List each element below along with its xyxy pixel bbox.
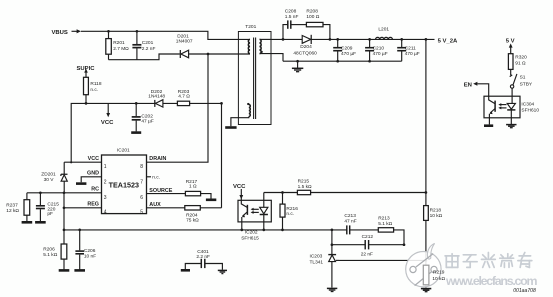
- svg-text:C206: C206: [84, 248, 96, 254]
- resistor R320: [508, 54, 527, 75]
- op-amp U1 IC201 TEA1523 body: [102, 147, 147, 213]
- diode D202 1N4148: [148, 89, 165, 107]
- resistor R215: [297, 179, 312, 195]
- svg-text:1: 1: [104, 164, 107, 170]
- wire aux feedback vertical: [221, 103, 223, 207]
- svg-text:C212: C212: [362, 234, 374, 240]
- capacitor C208: [285, 8, 307, 28]
- ground bar C401 left: [181, 269, 190, 272]
- pin 1 VCC: [64, 156, 107, 170]
- capacitor C201: [132, 31, 155, 59]
- pin 4 REG: [64, 202, 107, 216]
- resistor R218: [424, 206, 443, 261]
- capacitor C209: [333, 39, 356, 61]
- svg-text:2: 2: [104, 179, 107, 185]
- diode D201 1N4007: [176, 33, 193, 58]
- wire VBUS rail to transformer primary top: [81, 31, 250, 39]
- pin 5 AUX: [140, 202, 185, 215]
- ground bar pin 2: [76, 182, 86, 185]
- svg-text:3: 3: [104, 195, 107, 201]
- svg-text:91 Ω: 91 Ω: [515, 61, 526, 67]
- junction dots left network: [39, 102, 223, 231]
- svg-text:C209: C209: [341, 45, 353, 51]
- svg-text:VBUS: VBUS: [52, 30, 68, 36]
- svg-text:VCC: VCC: [101, 120, 114, 126]
- node VCC label IC202: [233, 184, 246, 199]
- svg-text:R219: R219: [433, 270, 445, 276]
- wire bottom rail: [64, 229, 347, 231]
- capacitor C206: [75, 230, 96, 270]
- junction dots feedback: [240, 191, 427, 231]
- svg-text:8: 8: [140, 164, 143, 170]
- svg-text:pF: pF: [47, 211, 53, 217]
- resistor R203: [177, 89, 190, 106]
- ground bar C206: [74, 269, 85, 272]
- svg-text:1.5 kΩ: 1.5 kΩ: [298, 184, 312, 190]
- svg-text:1N4007: 1N4007: [176, 39, 193, 45]
- svg-text:5.1 kΩ: 5.1 kΩ: [378, 221, 392, 227]
- svg-text:n.c.: n.c.: [90, 88, 98, 93]
- LED IC304: [507, 96, 515, 124]
- capacitor C212: [332, 234, 404, 257]
- svg-text:R320: R320: [515, 55, 527, 61]
- svg-text:S1: S1: [520, 75, 526, 81]
- resistor R204: [185, 206, 222, 224]
- svg-text:2.2 nF: 2.2 nF: [142, 46, 156, 52]
- wire VCC aux rail: [71, 103, 221, 162]
- ground R219 (earth): [421, 289, 431, 292]
- capacitor C210: [365, 39, 388, 61]
- ground IC304 LED (earth): [506, 125, 516, 128]
- svg-text:C202: C202: [141, 114, 153, 120]
- ground secondary (earth): [292, 61, 303, 71]
- pin 6 SOURCE: [140, 188, 185, 201]
- svg-text:ZD201: ZD201: [41, 172, 56, 178]
- ground bar IC304 transistor: [484, 124, 493, 127]
- svg-text:n.c.: n.c.: [286, 212, 294, 217]
- capacitor C401: [185, 249, 222, 270]
- wire snubber bottom to D201 cathode: [109, 54, 180, 60]
- svg-text:DRAIN: DRAIN: [149, 156, 166, 162]
- wire DRAIN pin to drain node: [147, 54, 209, 162]
- wire output sense vertical: [425, 39, 427, 205]
- svg-text:R215: R215: [298, 179, 310, 185]
- svg-text:STBY: STBY: [520, 82, 533, 88]
- svg-text:R118: R118: [90, 81, 101, 87]
- svg-text:D204: D204: [300, 44, 312, 50]
- svg-text:470 µF: 470 µF: [341, 51, 356, 57]
- svg-text:TL341: TL341: [310, 259, 324, 265]
- transformer T201 box: [238, 32, 271, 125]
- node VCC arrow tap: [101, 103, 114, 126]
- svg-text:C201: C201: [142, 40, 154, 46]
- transistor IC202 phototransistor: [241, 197, 247, 230]
- svg-text:n.c.: n.c.: [152, 176, 160, 181]
- optocoupler IC202 box: [238, 200, 271, 241]
- svg-text:SOURCE: SOURCE: [149, 188, 172, 194]
- ground bar R206: [59, 269, 70, 272]
- wire TL431 cathode line: [331, 230, 333, 255]
- svg-text:C401: C401: [197, 249, 209, 255]
- ground bar aux winding: [225, 126, 236, 129]
- svg-text:6: 6: [140, 195, 143, 201]
- svg-text:4: 4: [104, 209, 107, 215]
- svg-text:470 µF: 470 µF: [405, 51, 420, 57]
- wire D201 anode to drain node and primary bottom: [189, 53, 250, 55]
- svg-text:10 kΩ: 10 kΩ: [432, 276, 445, 282]
- resistor R208: [306, 8, 323, 26]
- ground bar C215: [35, 221, 46, 224]
- svg-text:www.elecfans.com: www.elecfans.com: [445, 274, 538, 288]
- svg-text:C208: C208: [285, 8, 297, 14]
- LED IC202: [260, 193, 268, 230]
- svg-text:1.5 nF: 1.5 nF: [285, 14, 299, 20]
- ground bar R217: [206, 199, 216, 202]
- svg-text:D201: D201: [177, 33, 189, 39]
- label drawing code 001aa708: [513, 288, 536, 294]
- optocoupler IC304 box: [484, 96, 539, 118]
- resistor R213: [378, 216, 404, 245]
- svg-text:5.1 kΩ: 5.1 kΩ: [43, 252, 57, 258]
- node VBUS label and arrow: [52, 29, 81, 36]
- capacitor C215: [36, 193, 59, 221]
- svg-text:R206: R206: [43, 246, 55, 252]
- svg-text:10 nF: 10 nF: [84, 254, 96, 260]
- svg-text:R201: R201: [113, 40, 125, 46]
- svg-text:VCC: VCC: [233, 184, 246, 190]
- svg-text:1N4148: 1N4148: [148, 93, 165, 99]
- svg-text:2.2 nF: 2.2 nF: [196, 254, 210, 260]
- svg-text:T201: T201: [245, 24, 256, 30]
- resistor R118: [84, 77, 102, 103]
- svg-text:4.7 Ω: 4.7 Ω: [178, 93, 190, 99]
- svg-text:IC304: IC304: [521, 102, 534, 108]
- pin 8 DRAIN: [140, 156, 166, 170]
- ground C401 right (earth): [218, 270, 227, 273]
- junction dots TL431 net: [331, 243, 428, 261]
- wire output ground rail: [283, 60, 402, 62]
- svg-text:IC201: IC201: [117, 147, 130, 153]
- svg-text:2.7 MΩ: 2.7 MΩ: [113, 46, 129, 52]
- svg-text:C213: C213: [344, 213, 356, 219]
- svg-text:L201: L201: [378, 26, 389, 32]
- capacitor C211: [397, 39, 420, 61]
- svg-text:47 µF: 47 µF: [141, 119, 153, 125]
- inductor L201: [376, 26, 393, 39]
- svg-text:SFH615: SFH615: [241, 235, 259, 241]
- svg-text:10 kΩ: 10 kΩ: [430, 213, 443, 219]
- svg-text:REG: REG: [87, 202, 99, 208]
- wire 5V output rail: [271, 38, 435, 40]
- svg-text:C210: C210: [373, 45, 385, 51]
- ground TL431 (earth): [327, 288, 337, 291]
- wire feedback top rail: [264, 192, 426, 194]
- switch S1 STBY: [510, 74, 533, 96]
- node SUPIC label and arrow: [77, 66, 96, 77]
- svg-text:SFH610: SFH610: [521, 108, 539, 114]
- capacitor C202: [132, 103, 154, 131]
- svg-text:7: 7: [140, 179, 143, 185]
- node 5 V label and arrow: [506, 38, 515, 53]
- pin 3 RC: [27, 187, 107, 202]
- transformer T201 label: [245, 24, 256, 30]
- svg-text:12 kΩ: 12 kΩ: [6, 208, 19, 214]
- svg-text:5 V_2A: 5 V_2A: [438, 38, 458, 44]
- svg-text:AUX: AUX: [149, 202, 161, 208]
- svg-text:IC203: IC203: [310, 254, 323, 260]
- junction dots top rail: [107, 30, 427, 63]
- resistor R206: [43, 230, 66, 270]
- svg-text:R213: R213: [378, 216, 390, 222]
- svg-text:5: 5: [140, 209, 143, 215]
- light arrows IC304: [498, 103, 506, 109]
- watermark chinese text: [445, 253, 532, 268]
- svg-text:100 Ω: 100 Ω: [306, 14, 319, 20]
- light arrows IC202: [251, 208, 259, 214]
- wire snubber right branch: [323, 25, 330, 40]
- svg-text:RC: RC: [91, 187, 99, 193]
- resistor R216: [280, 193, 298, 230]
- junction drain node: [207, 53, 210, 56]
- wire R219 branch: [425, 260, 427, 287]
- resistor R219 (under watermark): [423, 265, 445, 285]
- svg-text:470 µF: 470 µF: [373, 51, 388, 57]
- transistor IC304 phototransistor: [489, 96, 495, 124]
- wire snubber left branch: [283, 25, 288, 40]
- pin 7 n.c.: [140, 176, 160, 186]
- node 5 V_2A label: [438, 38, 458, 44]
- svg-text:R208: R208: [306, 8, 318, 14]
- wire aux winding bottom: [231, 117, 249, 127]
- resistor R201: [106, 31, 129, 59]
- svg-text:EN: EN: [464, 82, 472, 88]
- resistor R217: [185, 179, 211, 199]
- svg-text:C211: C211: [405, 45, 416, 51]
- transformer core: [254, 38, 256, 120]
- svg-text:GND: GND: [87, 171, 99, 177]
- ground bar R237: [22, 221, 33, 224]
- svg-text:30 V: 30 V: [44, 177, 55, 183]
- transformer primary winding: [248, 39, 250, 53]
- pin 2 GND: [81, 171, 107, 186]
- svg-text:001aa708: 001aa708: [513, 288, 536, 294]
- svg-text:1 Ω: 1 Ω: [189, 184, 197, 190]
- svg-text:IC202: IC202: [245, 229, 258, 235]
- resistor R237: [6, 193, 29, 221]
- wire secondary bottom to output ground: [260, 54, 284, 62]
- shunt regulator IC203 TL431: [310, 254, 340, 288]
- watermark logo circle: [406, 243, 441, 287]
- watermark url text: [445, 274, 538, 288]
- svg-text:R204: R204: [186, 212, 198, 218]
- wire reference: [339, 259, 426, 261]
- node EN label and arrow: [464, 82, 489, 96]
- wire secondary top pin: [260, 38, 272, 40]
- svg-text:47 nF: 47 nF: [344, 218, 356, 224]
- svg-text:R237: R237: [6, 202, 18, 208]
- svg-text:VCC: VCC: [88, 156, 99, 162]
- transformer auxiliary winding: [247, 103, 250, 117]
- svg-text:22 nF: 22 nF: [361, 252, 373, 258]
- svg-text:48CTQ060: 48CTQ060: [293, 50, 317, 56]
- capacitor C213: [344, 213, 378, 235]
- svg-text:TEA1523: TEA1523: [109, 181, 139, 190]
- wire ZD line RC to bottom rail: [63, 193, 65, 230]
- transformer secondary winding: [260, 39, 263, 53]
- svg-text:R218: R218: [430, 207, 442, 213]
- diode D204 48CTQ060: [293, 35, 317, 57]
- svg-text:5 V: 5 V: [506, 38, 515, 44]
- ground bar C202: [131, 131, 141, 134]
- zener diode ZD201: [41, 162, 67, 193]
- svg-text:75 kΩ: 75 kΩ: [186, 218, 199, 224]
